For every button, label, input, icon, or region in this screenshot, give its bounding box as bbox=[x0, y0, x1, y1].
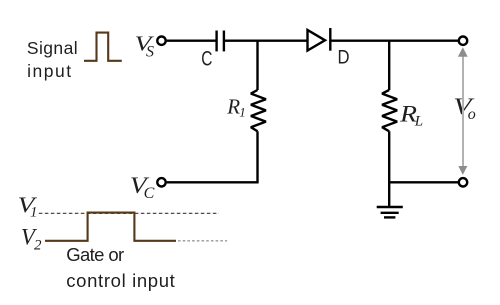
resistor RL bbox=[382, 90, 397, 131]
wire RL to ground bbox=[388, 131, 390, 207]
signal input pulse waveform bbox=[84, 33, 122, 61]
ground bbox=[377, 206, 403, 208]
svg-text:R: R bbox=[226, 94, 240, 118]
dashed level line V2 bbox=[178, 240, 227, 242]
svg-text:o: o bbox=[468, 106, 476, 123]
svg-text:2: 2 bbox=[34, 238, 42, 254]
wire top rail to R1 bbox=[256, 41, 258, 90]
svg-text:1: 1 bbox=[239, 105, 246, 120]
resistor R1 bbox=[251, 90, 266, 131]
diode D bbox=[308, 30, 326, 51]
svg-text:D: D bbox=[338, 46, 350, 68]
dashed level line V1 bbox=[39, 212, 219, 214]
Vo arrow bbox=[462, 55, 464, 167]
terminal output top bbox=[459, 37, 467, 45]
wire VS to C bbox=[167, 40, 216, 42]
svg-text:C: C bbox=[144, 185, 155, 202]
terminal VC bbox=[157, 178, 165, 186]
svg-text:input: input bbox=[27, 61, 71, 81]
terminal output bottom bbox=[459, 178, 467, 186]
svg-text:S: S bbox=[146, 43, 154, 60]
svg-text:L: L bbox=[414, 113, 423, 129]
svg-text:1: 1 bbox=[30, 205, 38, 221]
wire R1 to VC rail bbox=[256, 131, 258, 182]
svg-text:Signal: Signal bbox=[27, 38, 78, 58]
wire VC horizontal bbox=[167, 181, 259, 183]
wire C to diode bbox=[225, 40, 308, 42]
terminal VS bbox=[157, 37, 165, 45]
svg-text:Gate or: Gate or bbox=[66, 244, 124, 265]
capacitor C bbox=[215, 31, 217, 52]
wire top rail to RL bbox=[388, 41, 390, 90]
gate control pulse waveform bbox=[45, 213, 176, 241]
wire diode to output terminal bbox=[330, 40, 458, 42]
svg-text:control input: control input bbox=[66, 270, 175, 291]
wire junction to bottom terminal bbox=[389, 181, 458, 183]
svg-text:C: C bbox=[201, 46, 212, 70]
